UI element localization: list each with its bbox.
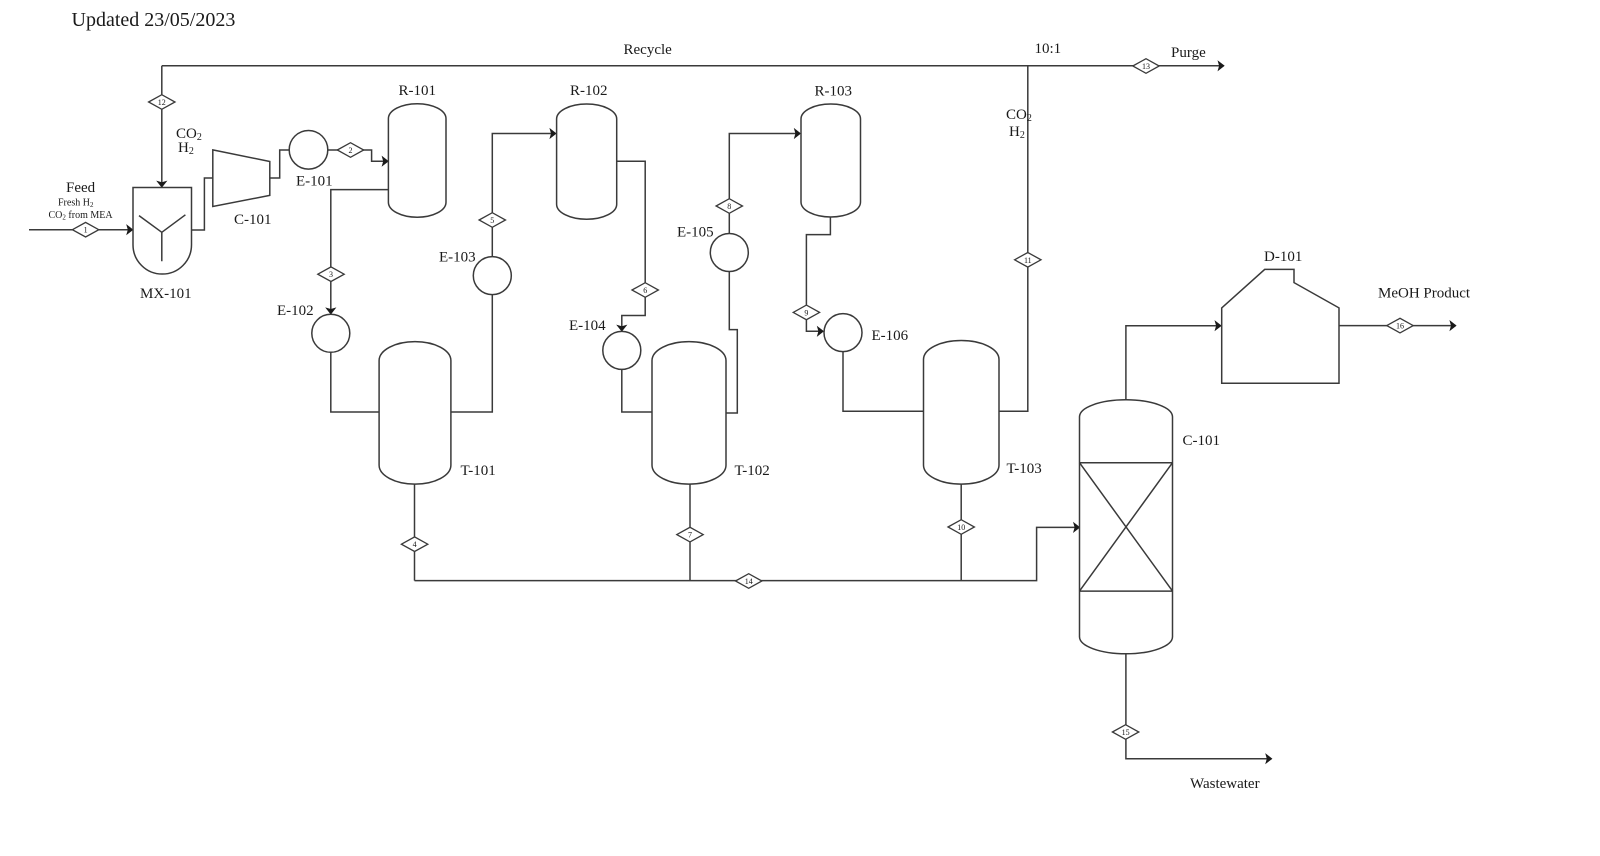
node stream 10 [948, 520, 974, 535]
svg-text:E-105: E-105 [677, 225, 714, 241]
heat exchanger E-104 [603, 331, 641, 369]
svg-text:R-102: R-102 [570, 83, 608, 99]
node stream 14 [736, 574, 762, 589]
node stream 9 [793, 305, 819, 320]
svg-text:T-102: T-102 [735, 463, 770, 479]
wire T-101 bottoms stream 4 [414, 484, 416, 580]
heat exchanger E-103 [473, 257, 511, 295]
arrow wastewater tip [1265, 753, 1272, 764]
svg-text:H2: H2 [178, 140, 194, 157]
wire column overhead to D-101 [1126, 326, 1221, 401]
svg-text:H2: H2 [1009, 124, 1025, 141]
svg-text:Recycle: Recycle [624, 42, 673, 58]
svg-text:4: 4 [413, 540, 417, 549]
svg-text:1: 1 [84, 226, 88, 235]
wire MX-101 outlet to C-101 [192, 178, 213, 230]
wire E-106 to T-103 [843, 352, 924, 412]
node stream 12 [149, 95, 175, 110]
svg-text:13: 13 [1142, 62, 1150, 71]
arrow into D-101 [1215, 320, 1222, 331]
column C-101 packing section [1080, 463, 1173, 591]
wire feed line stream 1 [29, 229, 133, 231]
svg-text:12: 12 [158, 98, 166, 107]
svg-text:11: 11 [1024, 256, 1032, 265]
svg-text:Feed: Feed [66, 180, 96, 196]
svg-text:D-101: D-101 [1264, 249, 1302, 265]
flash drum T-103 [924, 341, 1000, 485]
node stream 1 [72, 222, 98, 237]
reactor R-103 [801, 104, 861, 217]
wire recycle header [162, 65, 1224, 67]
node stream 11 [1015, 253, 1041, 268]
svg-text:2: 2 [349, 146, 353, 155]
svg-text:E-101: E-101 [296, 174, 333, 190]
svg-text:R-101: R-101 [399, 83, 437, 99]
wire stream 16 D-101 to product [1339, 325, 1456, 327]
heat exchanger E-101 [289, 131, 328, 170]
node stream 6 [632, 283, 658, 298]
wire T-103 bottoms stream 10 [960, 484, 962, 580]
svg-text:16: 16 [1396, 322, 1404, 331]
mixer MX-101 [133, 188, 192, 275]
flash drum T-102 [652, 342, 726, 485]
wire E-104 to T-102 [622, 369, 652, 412]
heat exchanger E-102 [312, 314, 350, 352]
arrow into E-104 [616, 325, 627, 332]
drum D-101 [1222, 269, 1339, 383]
wire stream 6 R-102 to E-104 [617, 161, 646, 330]
arrow into R-101 [382, 156, 389, 167]
wire stream 11 T-103 to recycle [999, 66, 1028, 411]
svg-text:5: 5 [490, 216, 494, 225]
svg-text:T-103: T-103 [1007, 461, 1042, 477]
svg-text:6: 6 [643, 286, 647, 295]
arrow into R-103 [794, 128, 801, 139]
node stream 2 [337, 143, 363, 158]
svg-text:R-103: R-103 [815, 84, 853, 100]
wire stream 12 recycle to mixer [161, 66, 163, 187]
stream diamonds [72, 59, 1413, 740]
svg-text:10: 10 [957, 523, 965, 532]
arrow into E-102 [325, 307, 336, 314]
arrow into E-106 [817, 326, 824, 337]
node stream 13 [1133, 59, 1159, 74]
svg-text:8: 8 [727, 202, 731, 211]
arrow into R-102 [549, 128, 556, 139]
svg-text:E-104: E-104 [569, 318, 606, 334]
svg-text:C-101: C-101 [1183, 433, 1221, 449]
column C-101 [1080, 400, 1173, 654]
node stream 4 [401, 537, 427, 552]
svg-text:T-101: T-101 [461, 463, 496, 479]
node stream 8 [716, 199, 742, 214]
arrow into column C-101 [1073, 522, 1080, 533]
svg-text:MX-101: MX-101 [140, 286, 192, 302]
svg-text:C-101: C-101 [234, 212, 272, 228]
wire stream 5 T-101 to R-102 [451, 134, 556, 413]
wire T-102 bottoms stream 7 [689, 484, 691, 580]
node stream 7 [677, 527, 703, 542]
flash drum T-101 [379, 342, 451, 485]
wire C-101 outlet to E-101 [270, 150, 289, 178]
wire column bottoms to wastewater [1126, 653, 1272, 759]
wire bottom collection line stream 14 to column [415, 527, 1080, 580]
svg-text:9: 9 [804, 308, 808, 317]
wire stream 9 R-103 to E-106 [806, 216, 830, 332]
svg-text:CO2 from MEA: CO2 from MEA [49, 210, 114, 222]
wire stream 2 E-101 to R-101 [328, 150, 388, 161]
node stream 5 [479, 213, 505, 228]
wire E-102 to T-101 [331, 352, 379, 412]
arrow feed into MX-101 [126, 224, 133, 235]
arrow MeOH product tip [1449, 320, 1456, 331]
MX-101 agitator [139, 215, 185, 261]
svg-text:E-106: E-106 [872, 328, 909, 344]
reactor R-102 [557, 104, 617, 219]
svg-text:7: 7 [688, 531, 692, 540]
arrow into MX-101 top [156, 181, 167, 188]
node stream 16 [1387, 318, 1413, 333]
reactor R-101 [388, 104, 446, 218]
heat exchanger E-105 [710, 234, 748, 272]
svg-text:MeOH Product: MeOH Product [1378, 286, 1471, 302]
svg-text:Wastewater: Wastewater [1190, 776, 1260, 792]
svg-text:E-102: E-102 [277, 303, 314, 319]
svg-text:3: 3 [329, 270, 333, 279]
svg-text:15: 15 [1122, 728, 1130, 737]
svg-text:E-103: E-103 [439, 250, 476, 266]
diamond numbers [84, 62, 1404, 737]
wire stream 3 R-101 to E-102 [331, 190, 389, 314]
node stream 3 [318, 267, 344, 282]
compressor C-101 [213, 150, 270, 207]
svg-text:Updated 23/05/2023: Updated 23/05/2023 [72, 9, 236, 31]
arrow purge tip [1218, 60, 1225, 71]
svg-text:Fresh H2: Fresh H2 [58, 198, 94, 210]
svg-text:Purge: Purge [1171, 45, 1206, 61]
node stream 15 [1112, 725, 1138, 740]
svg-text:14: 14 [745, 577, 753, 586]
svg-text:10:1: 10:1 [1035, 41, 1062, 57]
wire stream 8 T-102 to R-103 [726, 134, 800, 414]
heat exchanger E-106 [824, 314, 862, 352]
